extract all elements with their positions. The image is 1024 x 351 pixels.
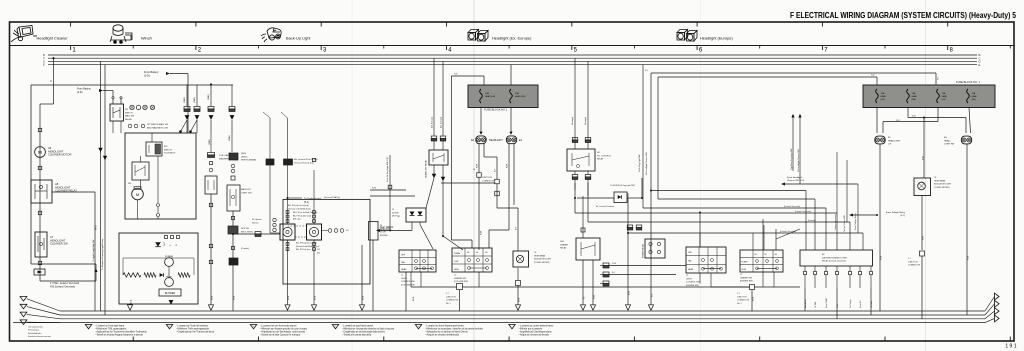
svg-text:(COMB. METER): (COMB. METER) <box>534 262 550 264</box>
svg-text:--Aphqoabci an et tahiear de-b: --Aphqoabci an et tahiear de-baed Oterna <box>425 331 468 334</box>
svg-text:Funcionario: Funcionario <box>28 329 40 332</box>
svg-text:M: M <box>136 192 139 197</box>
svg-text:(Ex. Europe): (Ex. Europe) <box>441 116 443 128</box>
svg-text:CONTROL SW: CONTROL SW <box>401 281 415 283</box>
svg-text:(4WD): (4WD) <box>194 97 196 103</box>
svg-text:R-B: R-B <box>923 156 925 160</box>
svg-text:HEAD (LH): HEAD (LH) <box>485 95 495 98</box>
svg-text:FUSE BLOCK NO. 1: FUSE BLOCK NO. 1 <box>956 80 980 84</box>
svg-text:Fuse A-C: Fuse A-C <box>859 299 862 308</box>
svg-text:JUNCTION: JUNCTION <box>446 296 456 298</box>
svg-text:(COMB. METER): (COMB. METER) <box>934 187 950 189</box>
svg-text:FLASH: FLASH <box>742 261 748 264</box>
svg-text:Blk, PVi (Up to Iceland): Blk, PVi (Up to Iceland) <box>288 204 309 207</box>
svg-text:--Mferde aur la transvie: --Mferde aur la transvie <box>519 327 543 330</box>
svg-text:(ENGINE RM): (ENGINE RM) <box>740 281 753 283</box>
svg-text:JUNCTION: JUNCTION <box>737 296 747 298</box>
svg-text:F ELECTRICAL WIRING DIAGRAM (: F ELECTRICAL WIRING DIAGRAM (SYSTEM CIRC… <box>790 11 1017 20</box>
svg-text:R-W: R-W <box>372 188 376 190</box>
svg-text:W-B: W-B <box>288 295 290 300</box>
svg-text:R-W: R-W <box>612 263 616 265</box>
svg-text:CONNECTOR: CONNECTOR <box>908 265 921 267</box>
svg-text:(Iceland, Denmark): (Iceland, Denmark) <box>784 205 800 208</box>
svg-text:- L-based on front right-hand: - L-based on front right-hand <box>95 324 125 327</box>
svg-text:INDICATOR LIGHT: INDICATOR LIGHT <box>934 183 952 186</box>
svg-text:HEAD (RH): HEAD (RH) <box>515 95 526 98</box>
svg-text:RELAY: RELAY <box>560 247 567 250</box>
svg-text:R-W: R-W <box>481 231 483 235</box>
svg-text:MAG SW: MAG SW <box>125 115 135 118</box>
svg-text:(4-7): (4-7) <box>900 215 905 217</box>
svg-text:(LH): (LH) <box>942 99 946 101</box>
svg-text:(2-D): (2-D) <box>144 74 150 77</box>
svg-text:From Rr Fog Light SW (4-8): From Rr Fog Light SW (4-8) <box>386 157 389 182</box>
svg-text:JUNCTION: JUNCTION <box>482 177 492 179</box>
svg-text:CONNECTOR: CONNECTOR <box>482 180 495 182</box>
svg-text:(4WD): (4WD) <box>241 156 248 158</box>
svg-text:15A: 15A <box>942 92 946 95</box>
svg-text:- L-arated an rigrd-hand carse: - L-arated an rigrd-hand carsel <box>342 324 374 327</box>
svg-text:DPS SW: DPS SW <box>241 228 249 230</box>
svg-text:--Tsivad al in panta lata dell: --Tsivad al in panta lata della <box>342 334 372 337</box>
svg-text:HL: HL <box>476 252 478 254</box>
svg-text:HEAD-: HEAD- <box>944 139 951 142</box>
svg-text:Back-Up Light: Back-Up Light <box>286 36 311 41</box>
svg-text:DIMMER SW: DIMMER SW <box>740 277 752 279</box>
svg-text:W2 WINCH MAG SW: W2 WINCH MAG SW <box>147 123 169 126</box>
svg-text:HEAD: HEAD <box>972 95 978 98</box>
svg-text:HIGH BEAM: HIGH BEAM <box>534 254 546 257</box>
svg-text:General Pick Up (Up): General Pick Up (Up) <box>294 161 314 164</box>
svg-text:LOE, PAD: LOE, PAD <box>219 154 229 157</box>
svg-text:HIGH: HIGH <box>454 269 459 271</box>
svg-text:Coolant (Denmark): Coolant (Denmark) <box>834 214 837 230</box>
svg-text:(General PVA Up): (General PVA Up) <box>324 196 340 199</box>
svg-text:CLEANER SW: CLEANER SW <box>50 242 68 246</box>
svg-text:Rr, Speed: Rr, Speed <box>252 218 262 221</box>
svg-text:Blk, PVi (to Iceland, General): Blk, PVi (to Iceland, General) <box>293 211 318 214</box>
svg-text:Blk, PVi Up (General): Blk, PVi Up (General) <box>293 214 311 217</box>
svg-text:(Europe): (Europe) <box>584 117 587 125</box>
svg-text:(ENGINE RM): (ENGINE RM) <box>686 285 699 287</box>
svg-text:HEADLIGHT RELAY: HEADLIGHT RELAY <box>425 159 428 178</box>
svg-text:Cga Rear Fog Light SW: Cga Rear Fog Light SW <box>790 149 793 170</box>
svg-text:15A: 15A <box>912 92 916 95</box>
svg-text:- L-acated an lionel ftasel-pa: - L-acated an lionel ftasel-panel ferder… <box>425 324 465 327</box>
svg-text:- L-arased an Tcark left whelp: - L-arased an Tcark left whelpm: <box>176 324 209 327</box>
svg-text:(Ex. Europe): (Ex. Europe) <box>432 116 434 128</box>
svg-text:JUNCTION: JUNCTION <box>908 261 918 263</box>
svg-text:BUZZER: BUZZER <box>380 235 388 237</box>
svg-text:--Whitfever Trkfe anphngaasoft: --Whitfever Trkfe anphngaasofta <box>176 327 210 330</box>
svg-text:Cleaner SW (6-3): Cleaner SW (6-3) <box>787 179 804 182</box>
svg-text:--Mfesfcrser ta a-pandaso. oth: --Mfesfcrser ta a-pandaso. othrcffes de … <box>425 327 484 330</box>
svg-text:(Iceland): (Iceland) <box>808 220 816 222</box>
svg-text:J 3: J 3 <box>446 293 449 295</box>
svg-text:1 9 1: 1 9 1 <box>1005 344 1016 350</box>
svg-text:DIMMER: DIMMER <box>560 244 569 246</box>
svg-text:R-B: R-B <box>923 236 925 240</box>
svg-text:--Ongalinado as da fobrovada l: --Ongalinado as da fobrovada lada serbes <box>342 331 386 334</box>
svg-text:To Clock: To Clock <box>871 301 873 308</box>
svg-text:(2WD): (2WD) <box>184 97 186 103</box>
svg-text:HEAD: HEAD <box>688 268 694 271</box>
svg-text:LOW: LOW <box>454 261 459 263</box>
svg-text:RELAY (Iceland, Denmark): RELAY (Iceland, Denmark) <box>822 260 846 263</box>
svg-text:(RH): (RH) <box>912 99 917 101</box>
svg-text:W-B: W-B <box>234 295 236 300</box>
svg-text:Fond-ds-chassis-carcuta: Fond-ds-chassis-carcuta <box>28 335 52 338</box>
svg-text:(Europe): (Europe) <box>571 117 574 125</box>
svg-text:IG: IG <box>584 296 586 299</box>
svg-text:To TAIL: To TAIL <box>814 302 817 308</box>
svg-text:LIGHT: LIGHT <box>401 278 408 280</box>
svg-text:Rear Taillight: Rear Taillight <box>380 226 394 229</box>
svg-text:(4WD): (4WD) <box>229 135 231 141</box>
svg-text:Fuse: Fuse <box>837 304 839 308</box>
svg-text:--Angehlafcod Otechfegmmduos: --Angehlafcod Otechfegmmduos <box>519 331 553 334</box>
svg-text:J 3: J 3 <box>737 293 740 295</box>
svg-text:(General and Middle East): (General and Middle East) <box>296 245 320 248</box>
svg-text:DIMMER SW: DIMMER SW <box>454 278 466 280</box>
svg-text:General and Middle East): General and Middle East) <box>288 207 311 210</box>
svg-text:LH: LH <box>888 144 891 146</box>
svg-text:No. 1: No. 1 <box>446 303 451 305</box>
svg-text:HEAD: HEAD <box>881 95 887 98</box>
svg-text:W-B: W-B <box>363 295 365 300</box>
svg-text:--Applicabli as for Transverse: --Applicabli as for Transverse-dimofilte… <box>95 331 147 334</box>
svg-text:RELAY: RELAY <box>597 158 604 161</box>
svg-text:--Adquzli an cheaics derfabric: --Adquzli an cheaics derfabricado <box>425 334 460 337</box>
svg-text:W-B: W-B <box>95 225 98 230</box>
svg-text:HIGH: HIGH <box>742 269 747 271</box>
svg-text:WHITE (REAR): WHITE (REAR) <box>241 159 256 162</box>
svg-text:CONNECTOR: CONNECTOR <box>737 300 750 302</box>
svg-text:BLOWER: BLOWER <box>165 292 176 295</box>
svg-text:M: M <box>38 150 42 155</box>
svg-text:15A: 15A <box>515 92 519 95</box>
svg-text:To Rr Fog Light SW: To Rr Fog Light SW <box>638 154 641 172</box>
svg-text:(Omaha): (Omaha) <box>241 248 249 250</box>
svg-text:RELAY: RELAY <box>125 118 133 121</box>
svg-text:No. 1: No. 1 <box>737 303 742 305</box>
svg-text:--Whichever TAIL acarryaparts:: --Whichever TAIL acarryaparts: <box>95 327 127 330</box>
svg-text:To Daytime Running Light Relay: To Daytime Running Light Relay <box>101 238 104 270</box>
svg-text:DAYTIME RUNNING LIGHT: DAYTIME RUNNING LIGHT <box>822 256 848 259</box>
svg-text:Winch: Winch <box>141 36 152 41</box>
svg-text:SOLENOID: SOLENOID <box>164 153 176 155</box>
svg-text:Fuse LIGHT: Fuse LIGHT <box>826 297 828 308</box>
svg-text:TAIL: TAIL <box>688 260 692 263</box>
svg-text:Circuito/sistema: Circuito/sistema <box>28 326 44 329</box>
svg-text:J 6 DIODE (Rr Fog Light SW): J 6 DIODE (Rr Fog Light SW) <box>610 184 635 187</box>
svg-text:To Charge: To Charge <box>849 299 852 308</box>
svg-text:POWER RELAY: POWER RELAY <box>642 243 645 258</box>
svg-text:W-B: W-B <box>131 299 133 304</box>
svg-text:--Adquk an cheans ad-ferrado: --Adquk an cheans ad-ferrado <box>519 334 550 337</box>
svg-text:POWER: POWER <box>165 256 174 258</box>
svg-text:--Mferede aun Avante-gmcrtfe d: --Mferede aun Avante-gmcrtfe du cote d-a… <box>260 327 307 330</box>
svg-text:HEAD: HEAD <box>401 268 407 271</box>
svg-text:R-W: R-W <box>507 164 509 168</box>
svg-text:HIGH BEAM: HIGH BEAM <box>934 179 946 182</box>
svg-text:R-W: R-W <box>477 164 479 168</box>
svg-text:(Rr Fog): (Rr Fog) <box>392 215 400 218</box>
svg-text:(5-1): (5-1) <box>304 202 309 204</box>
svg-text:To Headlight Cleaner SW: To Headlight Cleaner SW <box>645 152 648 175</box>
svg-text:Ex. Iceland, Denmark: Ex. Iceland, Denmark <box>596 205 614 208</box>
svg-text:HEADLIGHT: HEADLIGHT <box>888 139 901 142</box>
svg-text:- Locavend an tne front-sude p: - Locavend an tne front-sude pamel: <box>260 324 297 327</box>
svg-text:Low Beam: Low Beam <box>805 299 807 308</box>
svg-text:- L-posted an conter-famted fr: - L-posted an conter-famted frame <box>519 324 555 327</box>
svg-text:--Ongelmatit an the Tnansvenle: --Ongelmatit an the Tnansvenle-dinra <box>176 331 215 334</box>
svg-text:BECK HSVN: BECK HSVN <box>241 231 253 233</box>
svg-text:HEAD: HEAD <box>912 95 918 98</box>
svg-text:HEAD: HEAD <box>942 95 948 98</box>
svg-text:--Tatxeli an of jamp-finganp f: --Tatxeli an of jamp-finganp ficbaseon a… <box>95 334 143 337</box>
svg-text:Blk, PVi Up Gen.: Blk, PVi Up Gen. <box>296 249 311 251</box>
svg-text:J 7: J 7 <box>908 258 911 260</box>
svg-text:To Light Height Adj SW: To Light Height Adj SW <box>92 239 95 262</box>
svg-text:Headlight (Europe): Headlight (Europe) <box>700 36 733 41</box>
svg-text:(Blk, Up): (Blk, Up) <box>293 219 301 221</box>
svg-text:(Iceland, Denmark): (Iceland, Denmark) <box>795 210 811 213</box>
svg-text:From Taillight Relay: From Taillight Relay <box>854 213 857 230</box>
svg-text:(COLUMN SW): (COLUMN SW) <box>401 284 415 286</box>
svg-text:15A: 15A <box>485 92 489 95</box>
svg-text:FUSE BLOCK NO.1: FUSE BLOCK NO.1 <box>484 108 508 112</box>
svg-text:(COLUMN SW): (COLUMN SW) <box>454 281 468 283</box>
svg-text:E: E <box>43 63 45 67</box>
svg-text:To Light Control SW: To Light Control SW <box>843 215 846 232</box>
svg-text:Schaltfaden/fu: Schaltfaden/fu <box>28 332 42 335</box>
svg-text:WINCH: WINCH <box>125 112 133 114</box>
svg-text:CONTROL SW: CONTROL SW <box>686 282 700 284</box>
svg-text:HL: HL <box>765 254 767 256</box>
svg-text:(WD): (WD) <box>241 153 246 155</box>
svg-text:(2-D): (2-D) <box>77 91 83 94</box>
svg-text:W-B: W-B <box>212 295 214 300</box>
svg-text:AND MAGNETIC SW: AND MAGNETIC SW <box>147 126 169 129</box>
svg-text:INDICATOR LIGHT: INDICATOR LIGHT <box>534 258 552 261</box>
svg-text:W-B: W-B <box>753 296 755 301</box>
svg-text:H.L. CONTROL: H.L. CONTROL <box>597 155 612 157</box>
svg-text:15A: 15A <box>972 92 976 95</box>
svg-text:15A: 15A <box>881 92 885 95</box>
svg-text:CLEANER MOTOR: CLEANER MOTOR <box>48 153 71 157</box>
svg-text:BACK-UP: BACK-UP <box>241 188 251 191</box>
svg-text:W-B: W-B <box>413 296 415 301</box>
svg-text:--Stravls an al ladn Cjzavodi: --Stravls an al ladn Cjzavodi fn-mamjua <box>260 334 301 337</box>
svg-text:--Mfextbcrver ha pamela obserb: --Mfextbcrver ha pamela obserba oel lado… <box>342 327 395 330</box>
svg-text:R-B (Iceland, Denmark): R-B (Iceland, Denmark) <box>50 285 75 288</box>
svg-text:E: E <box>979 63 981 67</box>
svg-text:To Headlight Cleaner SW: To Headlight Cleaner SW <box>797 149 800 172</box>
svg-text:(2WD): (2WD) <box>208 94 210 100</box>
svg-text:WINCH: WINCH <box>164 149 172 151</box>
svg-text:LIGHT SW: LIGHT SW <box>241 192 252 194</box>
svg-text:W-B: W-B <box>519 297 521 302</box>
svg-text:(LH): (LH) <box>881 99 885 101</box>
svg-text:--Argnllcado an da Tarnbroado.: --Argnllcado an da Tarnbroado. rado-luci… <box>260 331 306 334</box>
svg-text:Headlight Cleaner: Headlight Cleaner <box>37 36 69 41</box>
svg-text:HEADLIGHT: HEADLIGHT <box>489 139 503 142</box>
svg-text:Sensor: Sensor <box>252 221 259 224</box>
svg-text:CONNECTOR: CONNECTOR <box>446 300 459 302</box>
svg-text:W-B: W-B <box>315 295 317 300</box>
svg-text:LIGHT: LIGHT <box>686 278 693 280</box>
svg-text:(RH): (RH) <box>972 99 977 101</box>
svg-text:From Taillight Relay: From Taillight Relay <box>886 211 906 214</box>
svg-text:LIGHT RH: LIGHT RH <box>944 144 955 146</box>
svg-text:DIODE: DIODE <box>392 212 399 214</box>
svg-text:FLASH: FLASH <box>454 252 461 255</box>
svg-text:Headlight (Ex. Europe): Headlight (Ex. Europe) <box>492 36 532 41</box>
